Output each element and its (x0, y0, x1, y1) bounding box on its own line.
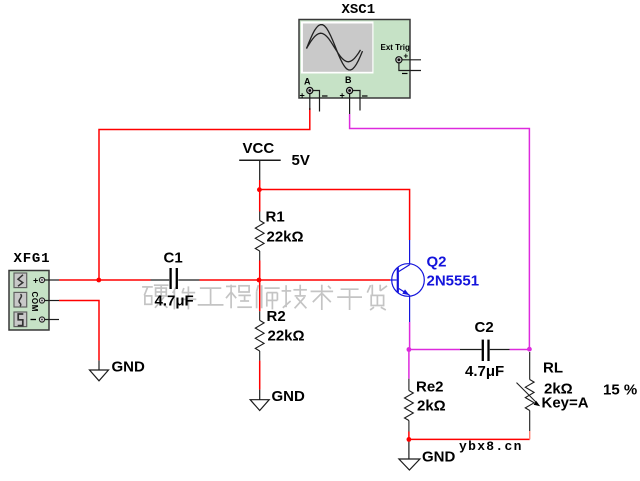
svg-text:GND: GND (272, 388, 306, 405)
wire C2 to node E (510, 349, 530, 351)
wire R1 to node C (259, 261, 261, 281)
wire VCC to node B (259, 180, 261, 190)
svg-text:R1: R1 (266, 209, 285, 226)
svg-text:2N5551: 2N5551 (427, 273, 480, 290)
oscilloscope XSC1 body (299, 20, 410, 99)
wire node C to R2 (259, 280, 261, 311)
capacitor C2 (460, 319, 510, 380)
ground GND mid (250, 388, 305, 411)
svg-text:XFG1: XFG1 (14, 251, 51, 267)
svg-text:+: + (340, 91, 345, 101)
svg-text:ybx8.cn: ybx8.cn (459, 439, 523, 454)
wire VCC rail to collector (260, 190, 410, 241)
svg-text:2kΩ: 2kΩ (417, 398, 446, 415)
svg-text:Re2: Re2 (416, 379, 444, 396)
svg-text:Key=A: Key=A (542, 395, 589, 412)
svg-text:+: + (404, 52, 409, 61)
svg-text:GND: GND (112, 359, 146, 376)
bottom node junction (407, 437, 412, 442)
wire scope B to output node (350, 114, 530, 350)
node E junction (527, 347, 532, 352)
svg-text:15 %: 15 % (603, 382, 637, 399)
scope channel B terminal (340, 75, 368, 114)
svg-text:4.7μF: 4.7μF (155, 292, 194, 309)
power VCC (239, 140, 310, 180)
node C junction (257, 278, 262, 283)
node A junction (96, 278, 101, 283)
svg-text:B: B (345, 75, 352, 85)
wire XFG1 plus to node A (59, 279, 99, 281)
wire XFG1 COM to ground (59, 301, 99, 361)
svg-text:+: + (300, 91, 305, 101)
node B junction (257, 187, 262, 192)
resistor R1 (255, 209, 303, 261)
svg-text:A: A (304, 77, 311, 87)
function generator XFG1 body (9, 271, 49, 331)
wire bottom node to RL (409, 438, 530, 440)
svg-text:4.7μF: 4.7μF (465, 363, 504, 380)
resistor Re2 (405, 379, 446, 432)
XFG1 plus terminal (33, 276, 59, 286)
ground GND bottom (399, 439, 456, 470)
wire node D to C2 (409, 349, 460, 351)
scope channel A terminal (300, 77, 328, 112)
wire C1 to Q2 base (200, 279, 391, 281)
svg-text:C1: C1 (164, 250, 183, 267)
wire node D to Re2 (408, 350, 410, 379)
wire node B to R1 (259, 190, 261, 212)
potentiometer RL (517, 352, 589, 431)
ground GND left (90, 359, 146, 381)
capacitor C1 (151, 250, 200, 310)
svg-text:5V: 5V (292, 152, 310, 169)
svg-text:+: + (33, 276, 38, 286)
svg-text:RL: RL (543, 360, 563, 377)
wire Re2 to bottom node (408, 432, 410, 440)
node D junction (407, 347, 412, 352)
wire R2 to ground (259, 361, 261, 390)
svg-text:VCC: VCC (243, 140, 275, 157)
svg-text:COM: COM (30, 292, 39, 312)
wire scope A to input node (99, 108, 310, 280)
svg-text:Q2: Q2 (427, 254, 447, 271)
svg-text:XSC1: XSC1 (342, 2, 376, 18)
svg-text:GND: GND (422, 449, 456, 466)
XFG1 minus terminal (31, 317, 60, 322)
XFG1 COM terminal (30, 292, 59, 312)
resistor R2 (255, 308, 304, 361)
svg-text:R2: R2 (267, 308, 286, 325)
svg-text:22kΩ: 22kΩ (268, 328, 305, 345)
transistor Q2 (390, 240, 479, 322)
wire emitter to node D (409, 322, 411, 350)
svg-text:22kΩ: 22kΩ (267, 229, 304, 246)
wire node A to C1 (99, 279, 151, 281)
watermark text (142, 285, 387, 310)
svg-text:C2: C2 (475, 319, 494, 336)
Ext Trig terminal (396, 52, 421, 74)
